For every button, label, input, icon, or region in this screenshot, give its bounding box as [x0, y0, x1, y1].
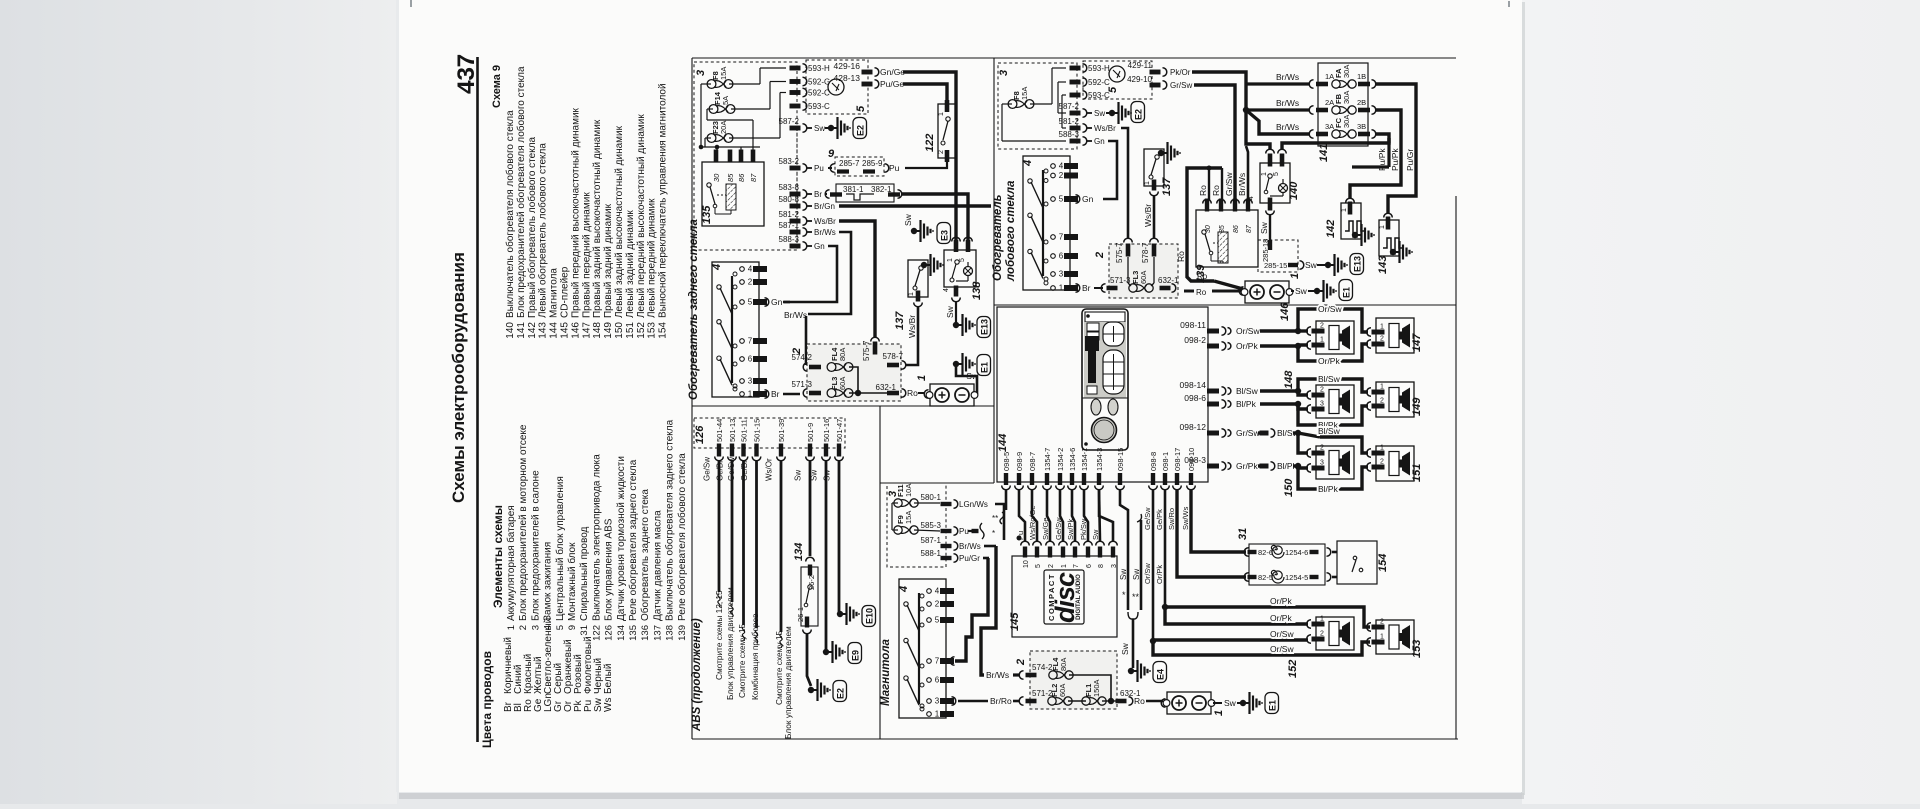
svg-text:140: 140 — [1288, 181, 1300, 200]
svg-text:Датчик уровня тормозной жидкос: Датчик уровня тормозной жидкости — [616, 456, 627, 621]
dashed stub box3 to terminals — [796, 128, 798, 250]
svg-text:Sw: Sw — [794, 470, 803, 481]
rear window heater element 136 — [836, 184, 894, 202]
svg-text:E10: E10 — [865, 608, 875, 624]
CD player 145 — [1012, 556, 1117, 637]
svg-text:Gn/Ge: Gn/Ge — [880, 67, 905, 77]
terminal 592-C — [790, 90, 801, 95]
svg-text:143: 143 — [1377, 256, 1389, 274]
ignition symbol — [828, 79, 844, 95]
svg-text:7: 7 — [935, 657, 940, 666]
svg-text:145: 145 — [560, 322, 571, 339]
svg-text:Ws/Br: Ws/Br — [1094, 124, 1116, 133]
svg-text:Sw: Sw — [1091, 529, 1100, 540]
windscreen heater element 142 — [1346, 198, 1355, 202]
svg-text:Pu/Ge: Pu/Ge — [880, 79, 904, 89]
CD pin 2 — [1048, 547, 1052, 558]
terminal 588-3 (B) — [1070, 139, 1081, 144]
wire 134 to ground E2 — [807, 633, 811, 686]
svg-text:134: 134 — [616, 625, 627, 641]
svg-text:148: 148 — [592, 322, 603, 339]
CD pin 1 — [1061, 547, 1065, 558]
svg-text:Ge/Sw: Ge/Sw — [1143, 507, 1152, 530]
wire Ge/Pk — [1164, 489, 1167, 607]
wire Br/Ws row 3A — [1246, 110, 1310, 134]
svg-text:138: 138 — [665, 625, 676, 641]
svg-text:1: 1 — [506, 625, 517, 630]
svg-text:571-3: 571-3 — [1110, 276, 1131, 285]
terminal 587-2 (B) — [1070, 111, 1081, 116]
svg-text:152: 152 — [636, 322, 647, 339]
svg-text:80A: 80A — [838, 348, 847, 361]
section frame — [692, 57, 1456, 59]
svg-text:Br/Ws: Br/Ws — [1237, 173, 1247, 196]
svg-text:1: 1 — [1380, 445, 1384, 452]
wire Sw/Ge — [1047, 489, 1050, 541]
svg-text:501-15: 501-15 — [753, 419, 762, 442]
central unit 5 dashed — [806, 60, 868, 114]
ground E2 (B) — [1106, 112, 1109, 114]
svg-text:153: 153 — [647, 322, 658, 339]
svg-text:593-C: 593-C — [808, 102, 830, 111]
svg-text:Sw: Sw — [1295, 286, 1308, 296]
svg-text:Sw: Sw — [945, 305, 955, 318]
svg-text:578-7: 578-7 — [883, 352, 904, 361]
wire Pu terminal to block 9 — [828, 167, 832, 169]
svg-text:ABS (продолжение): ABS (продолжение) — [691, 618, 703, 732]
svg-text:4: 4 — [898, 586, 910, 593]
svg-text:Sw/Ws: Sw/Ws — [1181, 506, 1190, 530]
svg-text:Br/Ro: Br/Ro — [990, 696, 1012, 706]
svg-text:Sw: Sw — [1259, 221, 1269, 234]
svg-text:Комбинация приборов: Комбинация приборов — [750, 613, 760, 700]
svg-text:4: 4 — [748, 265, 753, 274]
svg-text:126: 126 — [604, 625, 615, 641]
header rule — [476, 57, 479, 742]
svg-text:145: 145 — [1009, 612, 1021, 631]
svg-text:151: 151 — [1411, 464, 1423, 482]
svg-text:587-2: 587-2 — [1059, 102, 1080, 111]
svg-text:1: 1 — [748, 390, 753, 399]
svg-text:Правый передний высокочастотны: Правый передний высокочастотный динамик — [570, 107, 581, 318]
svg-text:588-1: 588-1 — [921, 549, 942, 558]
svg-text:428-13: 428-13 — [834, 73, 861, 83]
svg-text:2B: 2B — [1357, 98, 1366, 107]
svg-text:Замок зажигания: Замок зажигания — [543, 542, 554, 621]
svg-text:581-2: 581-2 — [1059, 117, 1080, 126]
svg-text:Правый задний высокочастотный: Правый задний высокочастотный динамик — [592, 119, 603, 318]
svg-text:Or/Pk: Or/Pk — [1270, 596, 1292, 606]
wires to 146-147 — [1260, 329, 1296, 332]
wire Br terminal to 136 — [825, 193, 827, 195]
wire Br/Ws row 1A — [1246, 82, 1310, 85]
battery 1 (D) — [1167, 692, 1211, 714]
fuse F14 5A — [709, 105, 718, 114]
svg-text:122: 122 — [591, 625, 602, 641]
svg-text:2: 2 — [1048, 564, 1055, 568]
svg-text:Or/Pk: Or/Pk — [1270, 613, 1292, 623]
svg-text:Br/Ws: Br/Ws — [1276, 98, 1299, 108]
svg-text:1: 1 — [916, 375, 928, 381]
svg-text:5: 5 — [555, 625, 566, 630]
svg-text:82-6: 82-6 — [1258, 548, 1273, 557]
svg-text:E2: E2 — [1134, 109, 1144, 120]
svg-text:501-9: 501-9 — [806, 423, 815, 442]
svg-text:7: 7 — [1073, 564, 1080, 568]
svg-text:2: 2 — [935, 600, 940, 609]
terminal 592-C (B) — [1070, 80, 1081, 85]
battery 1 — [930, 384, 974, 406]
terminal 580-8 — [790, 204, 801, 209]
fuse link box 2 dashed — [807, 344, 901, 401]
terminal 593-H — [790, 66, 801, 71]
svg-text:Блок управления двигателем: Блок управления двигателем — [783, 626, 793, 739]
svg-text:Br/Ws: Br/Ws — [814, 228, 836, 237]
svg-text:593-H: 593-H — [808, 64, 830, 73]
oil pressure switch 137 — [908, 260, 928, 297]
svg-text:6: 6 — [935, 676, 940, 685]
wire Gr/Sw to relay 139 — [1194, 85, 1235, 200]
block 9 dashed (B) — [1258, 240, 1298, 272]
svg-text:571-3: 571-3 — [792, 380, 813, 389]
fuse FB 30A — [1309, 106, 1313, 115]
svg-text:15A: 15A — [719, 67, 728, 80]
svg-text:Gr/Sw: Gr/Sw — [1170, 81, 1192, 90]
svg-text:1: 1 — [1144, 181, 1151, 185]
svg-text:Gn: Gn — [814, 242, 825, 251]
ground E13 — [953, 322, 959, 328]
radio fuse box 2 dashed (D) — [1030, 651, 1117, 709]
wire Pk/Sw — [1084, 489, 1088, 541]
svg-text:137: 137 — [1161, 177, 1173, 196]
svg-text:Sw: Sw — [1120, 642, 1130, 655]
svg-text:Левый задний высокочастотный д: Левый задний высокочастотный динамик — [614, 125, 625, 318]
svg-text:592-G: 592-G — [808, 78, 830, 87]
svg-text:580-8: 580-8 — [779, 195, 800, 204]
svg-text:144: 144 — [549, 322, 560, 339]
svg-text:Ws/Ro/Ge: Ws/Ro/Ge — [1028, 505, 1037, 540]
terminal 581-2 (B) — [1070, 126, 1081, 131]
terminal 581-2 — [790, 219, 801, 224]
svg-text:Pk/Or: Pk/Or — [1170, 68, 1191, 77]
svg-text:6: 6 — [748, 355, 753, 364]
wire 2B Pu/Pk to heater 142 — [1350, 110, 1401, 199]
svg-text:1B: 1B — [1357, 72, 1366, 81]
svg-text:7: 7 — [748, 337, 753, 346]
ground E4 — [1128, 668, 1134, 674]
svg-text:Bl/Sw: Bl/Sw — [1318, 426, 1341, 436]
svg-text:Br/Ws: Br/Ws — [959, 542, 981, 551]
svg-text:60A: 60A — [1058, 684, 1067, 697]
svg-text:1: 1 — [1380, 634, 1384, 641]
svg-text:Pu/Pk: Pu/Pk — [1377, 148, 1387, 171]
svg-text:Ws/Or: Ws/Or — [765, 458, 774, 481]
svg-text:60A: 60A — [838, 377, 847, 390]
wire Ro to battery (D) — [1146, 700, 1163, 702]
wire Pu — [1019, 489, 1025, 541]
fuse FL1 150A — [1082, 697, 1090, 705]
wire Ws/Br to 575-7 (B) — [1121, 128, 1128, 238]
svg-text:147: 147 — [581, 322, 592, 339]
svg-text:Sw: Sw — [1305, 260, 1318, 270]
central unit 5 dashed (B) — [1083, 61, 1152, 99]
svg-text:Аккумуляторная батарея: Аккумуляторная батарея — [505, 505, 517, 621]
wire Pk/Or — [1192, 72, 1246, 108]
svg-text:150: 150 — [1283, 478, 1295, 497]
svg-text:Ro: Ro — [1134, 696, 1145, 706]
svg-text:429-11: 429-11 — [1128, 61, 1153, 70]
wire to remote switch — [1332, 551, 1337, 554]
svg-text:429-16: 429-16 — [834, 61, 861, 71]
svg-text:Sw/Pk: Sw/Pk — [1066, 518, 1075, 540]
wire Sw to ground E4 — [1132, 619, 1135, 668]
fuse F8 15A — [707, 80, 716, 89]
svg-text:146: 146 — [1279, 302, 1291, 321]
fuse link box 2 dashed (B) — [1109, 244, 1178, 298]
wire Gn/Ge to switch 138 pin1 — [903, 72, 956, 240]
front right speaker 147 — [1376, 318, 1414, 353]
svg-text:122: 122 — [924, 134, 936, 152]
remote control switch 154 — [1337, 541, 1377, 584]
svg-text:Br/Ws: Br/Ws — [784, 310, 807, 320]
terminal 587-2 — [790, 126, 801, 131]
svg-text:Br: Br — [814, 190, 822, 199]
svg-text:Ro: Ro — [1176, 251, 1186, 262]
svg-text:142: 142 — [527, 322, 538, 339]
svg-text:15A: 15A — [904, 511, 913, 524]
svg-text:585-3: 585-3 — [921, 521, 942, 530]
svg-text:153: 153 — [1411, 640, 1423, 658]
svg-text:154: 154 — [658, 322, 669, 339]
svg-text:4: 4 — [943, 288, 950, 292]
terminal 585-3 — [914, 530, 940, 531]
svg-text:4: 4 — [543, 625, 554, 630]
svg-text:Or/Sw: Or/Sw — [1236, 326, 1260, 336]
svg-text:Bl/Pk: Bl/Pk — [1318, 484, 1339, 494]
svg-text:3: 3 — [1059, 270, 1064, 279]
wire Sw 098-15 — [1120, 489, 1128, 610]
svg-text:Br: Br — [771, 389, 780, 399]
svg-text:575-7: 575-7 — [1115, 242, 1124, 263]
svg-text:632-1: 632-1 — [1158, 276, 1179, 285]
svg-text:1: 1 — [1341, 208, 1348, 212]
svg-text:9: 9 — [567, 625, 578, 630]
svg-text:098-9: 098-9 — [1015, 452, 1024, 471]
svg-text:3: 3 — [748, 377, 753, 386]
svg-text:139: 139 — [677, 625, 688, 641]
wire Ge/Sw to speakers 152-153 — [1152, 489, 1155, 641]
svg-text:5: 5 — [935, 616, 940, 625]
radio ignition feed wires — [955, 558, 988, 661]
svg-text:1354-2: 1354-2 — [1056, 448, 1065, 471]
ground E1 (D) — [1240, 700, 1246, 706]
ground E9 — [823, 649, 829, 655]
svg-text:Or/Pk: Or/Pk — [1236, 341, 1258, 351]
svg-text:82-5: 82-5 — [1258, 573, 1273, 582]
svg-text:4: 4 — [1059, 162, 1064, 171]
svg-text:098-11: 098-11 — [1180, 320, 1206, 330]
svg-text:5: 5 — [1059, 195, 1064, 204]
terminal 593-C (B) — [1070, 93, 1081, 98]
ground E1 (B) — [1314, 288, 1320, 294]
svg-text:1: 1 — [908, 292, 915, 296]
svg-text:4: 4 — [711, 264, 723, 271]
svg-text:8: 8 — [1098, 564, 1105, 568]
windscreen heater element 143 — [1384, 213, 1393, 217]
svg-text:7: 7 — [1059, 233, 1064, 242]
svg-text:Выключатель обогревателя лобов: Выключатель обогревателя лобового стекла — [504, 110, 516, 318]
svg-text:098-17: 098-17 — [1173, 448, 1182, 471]
svg-text:2: 2 — [1059, 171, 1064, 180]
ground E13 (B) — [1317, 264, 1325, 266]
svg-text:592-C: 592-C — [808, 89, 830, 98]
oil pressure switch 137 (B) — [1144, 149, 1164, 186]
svg-text:Ro: Ro — [1198, 185, 1208, 196]
svg-text:Sw: Sw — [1119, 569, 1128, 580]
svg-text:E3: E3 — [940, 230, 950, 241]
svg-text:3: 3 — [935, 697, 940, 706]
svg-text:Левый передний динамик: Левый передний динамик — [647, 198, 658, 318]
terminal 583-8 — [790, 192, 801, 197]
svg-text:Bl/Sw: Bl/Sw — [1236, 386, 1259, 396]
svg-text:LGn/Ws: LGn/Ws — [959, 500, 988, 509]
wire Sw/Pk — [1072, 489, 1075, 541]
compact disc logo — [1044, 570, 1084, 624]
svg-text:Sw: Sw — [814, 124, 825, 133]
svg-text:Gr/Pk: Gr/Pk — [1236, 461, 1258, 471]
inline connector Gr/Pk to Bl/Pk — [1258, 464, 1260, 467]
svg-text:**: ** — [992, 514, 998, 523]
svg-text:1354-1: 1354-1 — [1080, 448, 1089, 471]
svg-text:Блок предохранителей в моторно: Блок предохранителей в моторном отсеке — [518, 424, 529, 621]
svg-text:6: 6 — [1059, 252, 1064, 261]
wire 122 to block 9 — [905, 162, 947, 168]
fuse box 3 dashed (D) — [887, 483, 946, 567]
svg-text:E2: E2 — [836, 688, 846, 699]
svg-text:10A: 10A — [904, 484, 913, 497]
svg-text:Ge/Sw: Ge/Sw — [1054, 517, 1063, 540]
rear heater switch 138 — [944, 250, 976, 287]
bracket merge — [1128, 612, 1138, 619]
svg-text:Ge/Sw: Ge/Sw — [703, 457, 712, 481]
terminal 588-3 — [790, 244, 801, 249]
svg-text:86: 86 — [1233, 225, 1240, 233]
svg-text:E13: E13 — [1353, 256, 1363, 272]
svg-text:5: 5 — [855, 105, 867, 112]
svg-text:Or/Pk: Or/Pk — [1155, 565, 1164, 584]
svg-text:149: 149 — [1411, 397, 1423, 416]
svg-text:Gn: Gn — [1094, 137, 1105, 146]
svg-text:5: 5 — [959, 258, 966, 262]
svg-text:80A: 80A — [1059, 658, 1068, 671]
svg-text:60A: 60A — [1139, 271, 1148, 284]
svg-text:CD-плейер: CD-плейер — [560, 266, 571, 318]
speaker feed wires Or/Pk Or/Sw — [1165, 607, 1370, 627]
CD pin 3 — [1111, 547, 1115, 558]
svg-text:2: 2 — [1380, 336, 1384, 343]
inline connector Gr/Sw to Bl/Sw — [1258, 431, 1260, 434]
svg-text:Ws: Ws — [603, 698, 614, 712]
svg-text:2: 2 — [1380, 459, 1384, 466]
svg-text:Правый передний динамик: Правый передний динамик — [581, 192, 592, 318]
wire Br/Gn long run — [839, 204, 991, 207]
svg-text:30A: 30A — [1342, 65, 1351, 78]
svg-text:2: 2 — [518, 625, 529, 630]
windscreen heater switch 140 — [1260, 163, 1290, 203]
svg-text:437: 437 — [453, 54, 480, 94]
svg-text:Pu: Pu — [959, 527, 969, 536]
svg-text:Ro: Ro — [1211, 185, 1221, 196]
svg-text:*: * — [992, 529, 995, 538]
svg-text:587-1: 587-1 — [779, 221, 800, 230]
fuse FA 30A — [1309, 80, 1313, 89]
svg-text:126: 126 — [694, 425, 706, 444]
svg-text:Левый передний высокочастотный: Левый передний высокочастотный динамик — [636, 114, 647, 318]
svg-text:139: 139 — [1195, 264, 1207, 283]
svg-text:Bl/Pk: Bl/Pk — [1236, 399, 1257, 409]
ground E1 — [953, 361, 959, 367]
svg-text:501-47: 501-47 — [835, 419, 844, 442]
svg-text:1354-6: 1354-6 — [1068, 448, 1077, 471]
svg-text:30A: 30A — [1342, 115, 1351, 128]
svg-text:381-1: 381-1 — [843, 185, 864, 194]
svg-text:Sw: Sw — [1132, 569, 1141, 580]
svg-text:Ro: Ro — [907, 388, 918, 398]
svg-text:5A: 5A — [721, 96, 730, 105]
wire Ws/Ro/Ge — [1032, 489, 1037, 541]
svg-text:30A: 30A — [1342, 91, 1351, 104]
svg-text:1: 1 — [1320, 616, 1324, 623]
svg-text:4: 4 — [1022, 160, 1034, 167]
svg-text:Br: Br — [1082, 283, 1091, 293]
svg-text:Pu/Gr: Pu/Gr — [1405, 149, 1415, 171]
svg-text:*: * — [1122, 590, 1126, 600]
svg-text:Ws/Br: Ws/Br — [1143, 204, 1153, 227]
junction Br/Ws — [1243, 107, 1249, 113]
svg-text:Магнитола: Магнитола — [880, 639, 892, 706]
terminal 587-1 — [790, 230, 801, 235]
svg-text:2: 2 — [1094, 252, 1106, 259]
wire Ge/Sw — [1060, 489, 1063, 541]
svg-text:Br/Ws: Br/Ws — [1276, 122, 1299, 132]
svg-text:501-16: 501-16 — [822, 419, 831, 442]
svg-text:144: 144 — [997, 434, 1009, 452]
svg-text:2: 2 — [938, 150, 945, 154]
svg-text:Датчик давления масла: Датчик давления масла — [652, 510, 663, 621]
svg-text:501-39: 501-39 — [777, 419, 786, 442]
wire Br/Ws row 2A — [1246, 108, 1310, 111]
svg-text:Ge/Pk: Ge/Pk — [1155, 509, 1164, 530]
svg-text:Левый обогреватель лобового ст: Левый обогреватель лобового стекла — [537, 143, 549, 318]
radio front panel — [1082, 309, 1128, 450]
radio head unit 144 — [997, 307, 1208, 482]
svg-text:Ge/Br: Ge/Br — [740, 460, 749, 481]
svg-text:098-3: 098-3 — [1184, 455, 1206, 465]
svg-text:Or/Sw: Or/Sw — [1270, 644, 1294, 654]
svg-text:Bl/Sw: Bl/Sw — [1318, 374, 1341, 384]
svg-text:Gr/Sw: Gr/Sw — [1236, 428, 1260, 438]
terminal 593-H (B) — [1070, 66, 1081, 71]
svg-text:3: 3 — [1320, 401, 1324, 408]
svg-text:285-9: 285-9 — [862, 159, 883, 168]
svg-text:Центральный блок управления: Центральный блок управления — [554, 476, 566, 621]
svg-text:Блок управления ABS: Блок управления ABS — [604, 518, 615, 621]
ground at 137 — [921, 262, 927, 268]
svg-text:87: 87 — [749, 173, 758, 182]
svg-text:588-3: 588-3 — [1059, 130, 1080, 139]
CD pin 10 — [1023, 547, 1027, 558]
svg-text:20A: 20A — [719, 121, 728, 134]
